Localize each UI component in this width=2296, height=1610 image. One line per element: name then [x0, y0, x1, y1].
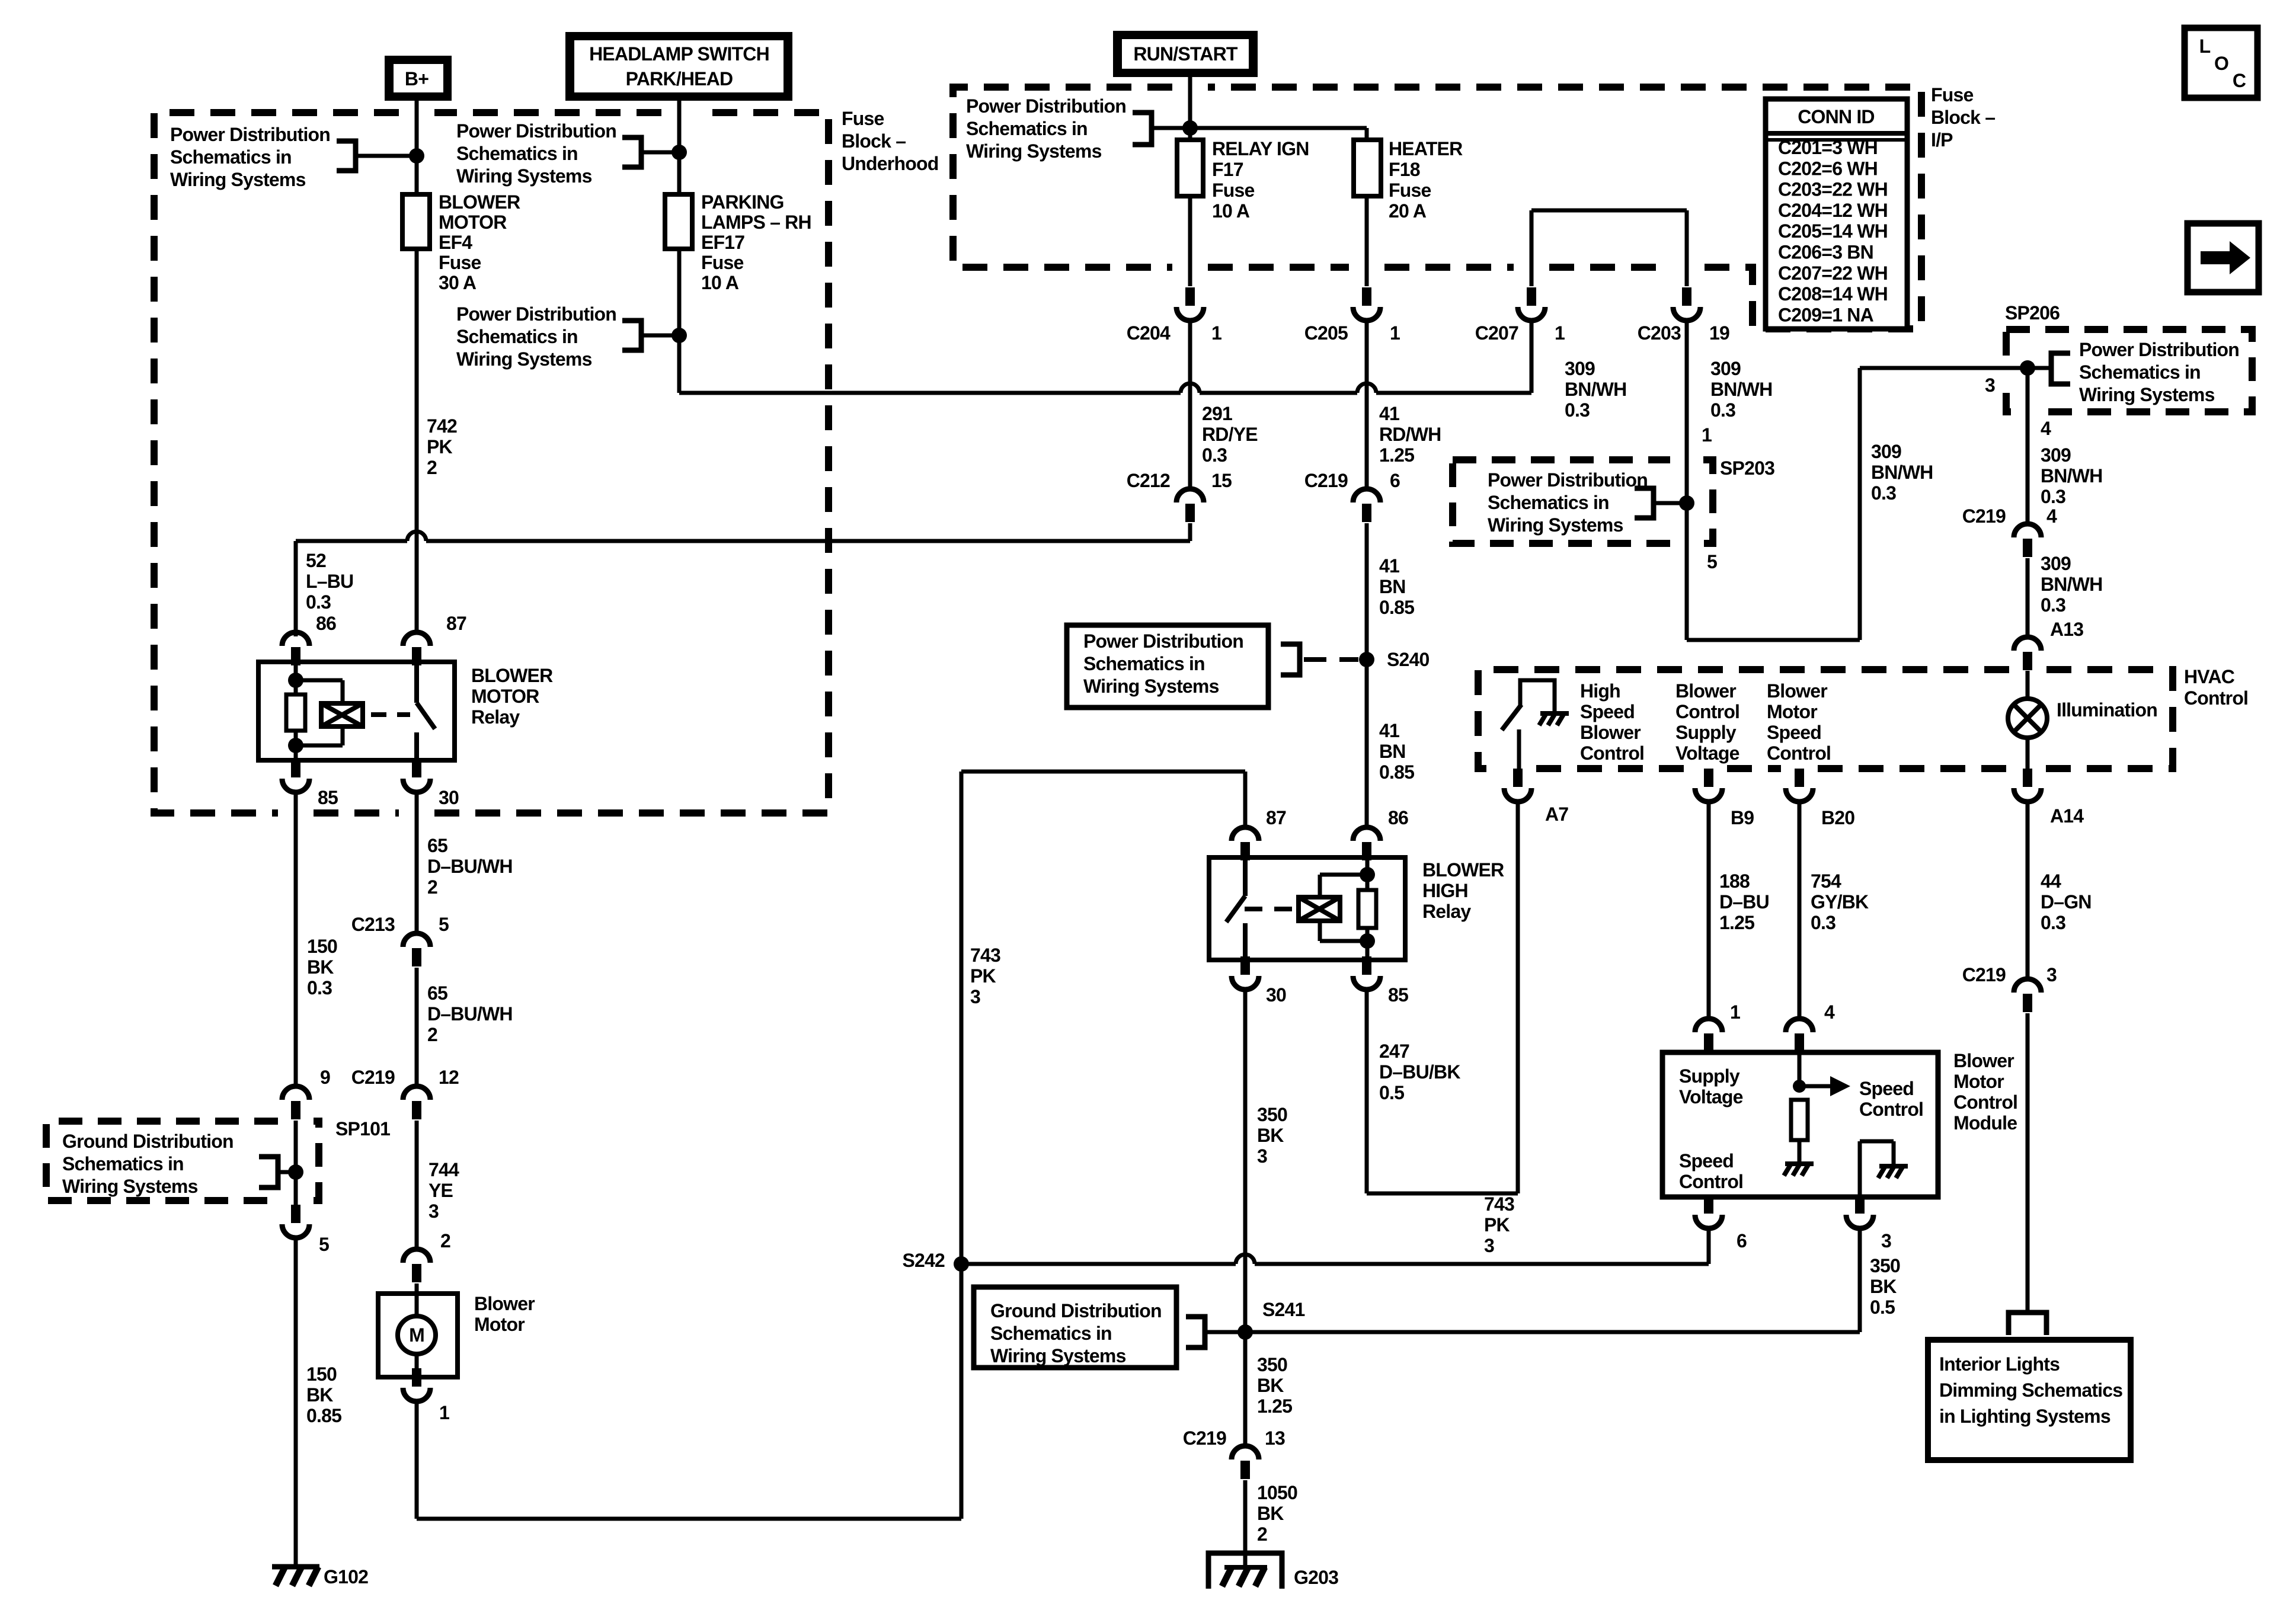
- svg-text:RD/YE: RD/YE: [1202, 424, 1258, 445]
- connector C205 pin 1: [1362, 287, 1371, 306]
- svg-text:C219: C219: [1962, 505, 2006, 527]
- svg-text:C212: C212: [1127, 470, 1170, 491]
- connector relay pin 87: [403, 632, 430, 646]
- relay high coil winding symbol: [1320, 857, 1367, 941]
- svg-text:291: 291: [1202, 403, 1232, 424]
- svg-text:Wiring Systems: Wiring Systems: [2079, 384, 2215, 405]
- wire 742 PK from EF4 to relay 87: [415, 249, 419, 632]
- svg-text:Wiring Systems: Wiring Systems: [62, 1176, 198, 1197]
- svg-text:3: 3: [1257, 1145, 1267, 1167]
- relay coil winding symbol: [296, 680, 343, 745]
- svg-text:Fuse: Fuse: [1389, 180, 1431, 201]
- svg-text:BK: BK: [307, 956, 334, 978]
- svg-text:BN: BN: [1379, 576, 1406, 597]
- connector relay high pin 85: [1362, 956, 1371, 975]
- wire hop at C205 column: [1357, 383, 1376, 393]
- relay switch contact: [414, 662, 419, 760]
- wire 309 BN/WH SP206 to C219-4: [2026, 368, 2030, 523]
- svg-text:Block –: Block –: [842, 130, 906, 152]
- RUN/START power terminal box: [1113, 31, 1258, 77]
- connector C212 pin 15: [1176, 489, 1204, 502]
- svg-text:BK: BK: [1257, 1125, 1284, 1146]
- svg-text:0.3: 0.3: [307, 977, 332, 998]
- svg-text:350: 350: [1870, 1255, 1900, 1276]
- wire 744 YE C219-12 to blower motor: [415, 1121, 419, 1249]
- svg-text:C201=3 WH: C201=3 WH: [1778, 137, 1878, 158]
- svg-text:Control: Control: [1767, 742, 1831, 764]
- connector HVAC pin A14: [2023, 769, 2032, 787]
- svg-text:Motor: Motor: [1767, 701, 1817, 722]
- svg-text:Supply: Supply: [1679, 1065, 1740, 1087]
- svg-text:Power Distribution: Power Distribution: [966, 95, 1126, 117]
- wire 350 BK S241 to C219-13: [1243, 1332, 1248, 1445]
- connector HVAC pin A13: [2014, 637, 2041, 651]
- svg-text:Speed: Speed: [1679, 1150, 1734, 1172]
- splice S241: [1237, 1324, 1253, 1340]
- svg-text:D–GN: D–GN: [2041, 891, 2092, 913]
- svg-text:1.25: 1.25: [1257, 1395, 1292, 1417]
- svg-text:S242: S242: [902, 1250, 945, 1271]
- svg-text:742: 742: [427, 415, 457, 437]
- connector C219 pin 13: [1232, 1446, 1259, 1459]
- wire RUN/START feed down: [1188, 77, 1192, 140]
- svg-text:SP101: SP101: [335, 1118, 390, 1140]
- svg-text:A7: A7: [1545, 804, 1568, 825]
- svg-text:BN: BN: [1379, 741, 1406, 762]
- svg-text:350: 350: [1257, 1354, 1287, 1375]
- svg-text:HEATER: HEATER: [1389, 138, 1463, 159]
- svg-text:BK: BK: [306, 1384, 333, 1406]
- fuse block - underhood dashed box: [154, 113, 829, 813]
- fuse EF17 parking lamps 10A: [665, 194, 692, 249]
- svg-text:Wiring Systems: Wiring Systems: [966, 140, 1102, 162]
- svg-text:Schematics in: Schematics in: [62, 1153, 184, 1174]
- connector C219 pin 12: [403, 1086, 430, 1100]
- B+ power terminal box: [385, 56, 452, 101]
- svg-text:I/P: I/P: [1931, 129, 1953, 151]
- relay coil resistor: [294, 665, 298, 694]
- svg-text:4: 4: [2046, 505, 2057, 527]
- wire 247 D-BU/BK relay85 to A7: [1367, 802, 1518, 1193]
- svg-text:BN/WH: BN/WH: [1565, 379, 1626, 400]
- wire parking lamps to C207: [679, 249, 1531, 393]
- arrow legend box: [2188, 223, 2259, 292]
- svg-text:B20: B20: [1821, 807, 1854, 828]
- svg-text:S240: S240: [1387, 649, 1430, 670]
- svg-text:4: 4: [1824, 1001, 1835, 1023]
- svg-text:Schematics in: Schematics in: [990, 1323, 1112, 1344]
- connector C207 pin 1: [1527, 287, 1536, 306]
- svg-text:Fuse: Fuse: [1212, 180, 1255, 201]
- svg-text:Ground Distribution: Ground Distribution: [62, 1131, 234, 1152]
- node junction at parking lamps wire upper: [671, 145, 687, 160]
- wire F17 to connector C204: [1188, 196, 1192, 286]
- svg-text:LAMPS – RH: LAMPS – RH: [701, 212, 811, 233]
- svg-text:Blower: Blower: [1675, 680, 1736, 702]
- svg-text:YE: YE: [428, 1180, 453, 1201]
- svg-text:309: 309: [1871, 441, 1901, 462]
- svg-text:Schematics in: Schematics in: [2079, 361, 2201, 383]
- svg-text:1.25: 1.25: [1379, 444, 1414, 466]
- svg-text:3: 3: [1484, 1235, 1494, 1256]
- svg-text:Relay: Relay: [1422, 901, 1471, 922]
- svg-text:C205=14 WH: C205=14 WH: [1778, 220, 1888, 242]
- svg-text:D–BU/WH: D–BU/WH: [427, 1003, 513, 1025]
- svg-text:3: 3: [1985, 375, 1995, 396]
- svg-text:Supply: Supply: [1675, 722, 1737, 743]
- connector relay pin 85: [291, 759, 300, 777]
- svg-text:BN/WH: BN/WH: [2041, 465, 2102, 486]
- svg-text:Power Distribution: Power Distribution: [1488, 469, 1648, 491]
- svg-text:C208=14 WH: C208=14 WH: [1778, 283, 1888, 305]
- module internal resistor: [1791, 1100, 1808, 1140]
- connector HVAC pin B20: [1795, 769, 1804, 787]
- svg-text:4: 4: [2041, 418, 2051, 439]
- svg-text:C205: C205: [1304, 322, 1348, 344]
- connector HVAC pin B9: [1704, 769, 1713, 787]
- connector C219 pin 9: [282, 1086, 309, 1100]
- wire F18 to connector C205: [1365, 196, 1369, 286]
- svg-text:Illumination: Illumination: [2057, 699, 2157, 721]
- svg-text:1: 1: [1730, 1001, 1740, 1023]
- svg-text:F17: F17: [1212, 159, 1243, 180]
- svg-text:SP203: SP203: [1720, 457, 1774, 479]
- svg-text:Fuse: Fuse: [439, 252, 481, 273]
- svg-text:BN/WH: BN/WH: [1871, 462, 1933, 483]
- svg-text:0.85: 0.85: [306, 1405, 341, 1426]
- svg-text:in Lighting Systems: in Lighting Systems: [1939, 1406, 2110, 1427]
- svg-text:RD/WH: RD/WH: [1379, 424, 1441, 445]
- svg-text:0.5: 0.5: [1379, 1082, 1404, 1103]
- svg-text:Blower: Blower: [474, 1293, 535, 1314]
- fuse F17 relay ign 10A: [1177, 140, 1203, 196]
- svg-text:D–BU/WH: D–BU/WH: [427, 856, 513, 877]
- splice pack SP203 dashed box: [1453, 460, 1713, 543]
- svg-text:0.3: 0.3: [1871, 482, 1896, 504]
- svg-text:HEADLAMP SWITCH: HEADLAMP SWITCH: [589, 43, 769, 65]
- svg-text:Underhood: Underhood: [842, 153, 938, 174]
- svg-text:PK: PK: [1484, 1214, 1510, 1235]
- svg-text:A14: A14: [2050, 805, 2084, 827]
- CONN ID table: [1766, 99, 1907, 329]
- wire headlamp switch to EF17 fuse: [677, 101, 682, 194]
- splice S242: [954, 1256, 969, 1272]
- connector C203 pin 19: [1682, 287, 1691, 306]
- svg-text:0.3: 0.3: [306, 591, 331, 613]
- svg-text:1: 1: [1390, 322, 1400, 344]
- svg-text:2: 2: [427, 876, 437, 898]
- svg-text:2: 2: [427, 1024, 437, 1045]
- svg-text:2: 2: [427, 457, 437, 478]
- node junction RUN/START branch: [1182, 120, 1198, 136]
- svg-text:Wiring Systems: Wiring Systems: [456, 348, 592, 370]
- svg-text:L: L: [2199, 36, 2211, 57]
- svg-text:Schematics in: Schematics in: [456, 143, 578, 164]
- svg-text:5: 5: [319, 1234, 329, 1255]
- connector relay pin 86: [282, 632, 309, 646]
- svg-text:86: 86: [316, 613, 336, 634]
- svg-text:Power Distribution: Power Distribution: [1083, 630, 1243, 652]
- svg-text:PK: PK: [970, 965, 996, 987]
- svg-text:C219: C219: [1962, 964, 2006, 985]
- svg-text:SP206: SP206: [2005, 302, 2060, 324]
- svg-text:C219: C219: [1183, 1427, 1226, 1449]
- svg-text:A13: A13: [2050, 619, 2083, 640]
- svg-text:BK: BK: [1870, 1276, 1897, 1297]
- svg-text:GY/BK: GY/BK: [1811, 891, 1869, 913]
- svg-text:1: 1: [1702, 424, 1712, 446]
- wire 150 BK SP101 to G102: [294, 1238, 298, 1565]
- svg-text:Schematics in: Schematics in: [170, 146, 292, 168]
- svg-text:0.5: 0.5: [1870, 1297, 1895, 1318]
- svg-text:Speed: Speed: [1767, 722, 1821, 743]
- svg-text:309: 309: [2041, 553, 2071, 574]
- wire 1050 BK to G203: [1243, 1480, 1248, 1569]
- svg-text:Power Distribution: Power Distribution: [170, 124, 330, 145]
- wire 44 D-GN A14 to C219-3: [2026, 802, 2030, 978]
- svg-text:0.3: 0.3: [2041, 912, 2065, 933]
- connector module pin 6: [1704, 1195, 1713, 1214]
- svg-text:EF4: EF4: [439, 232, 472, 253]
- splice S240: [1359, 652, 1374, 667]
- svg-text:10 A: 10 A: [1212, 200, 1250, 222]
- svg-text:Schematics in: Schematics in: [1083, 653, 1205, 674]
- wire 309 BN/WH C203 through SP203: [1687, 321, 2028, 640]
- svg-text:30 A: 30 A: [439, 272, 477, 293]
- wire S242 to module pin 6: [961, 1229, 1709, 1264]
- svg-text:150: 150: [306, 1363, 337, 1385]
- svg-text:PK: PK: [427, 436, 453, 457]
- svg-text:C203: C203: [1638, 322, 1681, 344]
- svg-text:15: 15: [1211, 470, 1232, 491]
- svg-text:G203: G203: [1294, 1567, 1338, 1588]
- wire 188 D-BU B9 to module 1: [1707, 802, 1711, 1018]
- svg-text:C204: C204: [1127, 322, 1171, 344]
- svg-text:3: 3: [970, 986, 980, 1007]
- blower motor control module box: [1662, 1052, 1938, 1197]
- svg-text:Power Distribution: Power Distribution: [456, 303, 616, 325]
- svg-text:Wiring Systems: Wiring Systems: [1488, 514, 1623, 536]
- svg-text:Wiring Systems: Wiring Systems: [456, 165, 592, 187]
- svg-text:5: 5: [439, 914, 449, 935]
- svg-text:F18: F18: [1389, 159, 1420, 180]
- relay coil-contact dashed link: [371, 712, 410, 717]
- svg-text:0.3: 0.3: [2041, 594, 2065, 616]
- wire 65 D-BU/WH C213 to C219-12: [415, 968, 419, 1086]
- svg-text:Fuse: Fuse: [1931, 84, 1974, 105]
- wire hop over 742 PK: [407, 532, 426, 541]
- svg-text:Dimming Schematics: Dimming Schematics: [1939, 1379, 2122, 1401]
- module internal speed control arrow: [1799, 1052, 1830, 1086]
- svg-text:Control: Control: [1679, 1171, 1743, 1192]
- svg-text:1: 1: [439, 1402, 449, 1423]
- interior lights dimming box: [1928, 1340, 2131, 1460]
- svg-text:41: 41: [1379, 720, 1399, 741]
- svg-text:Motor: Motor: [1953, 1071, 2004, 1092]
- svg-text:1.25: 1.25: [1719, 912, 1754, 933]
- connector C219 pin 4: [2014, 524, 2041, 537]
- svg-text:BN/WH: BN/WH: [1710, 379, 1772, 400]
- svg-text:309: 309: [1710, 358, 1741, 379]
- wire hop at C204 column: [1181, 383, 1200, 393]
- terminal staple interior lights: [2009, 1313, 2046, 1335]
- svg-text:BK: BK: [1257, 1503, 1284, 1524]
- wire blower motor pin1 to S242: [417, 772, 961, 1519]
- svg-text:Fuse: Fuse: [701, 252, 744, 273]
- svg-text:6: 6: [1390, 470, 1400, 491]
- svg-text:C209=1 NA: C209=1 NA: [1778, 304, 1874, 325]
- relay high coil resistor: [1358, 890, 1376, 928]
- svg-text:44: 44: [2041, 870, 2061, 892]
- svg-text:0.3: 0.3: [1710, 399, 1735, 421]
- svg-text:0.3: 0.3: [1202, 444, 1227, 466]
- node junction SP203: [1679, 495, 1694, 511]
- svg-text:6: 6: [1737, 1230, 1747, 1251]
- lamp illumination: [2026, 671, 2030, 699]
- wire 150 BK relay85 to C219-9: [294, 793, 298, 1086]
- svg-text:C202=6 WH: C202=6 WH: [1778, 158, 1878, 179]
- svg-text:52: 52: [306, 550, 326, 571]
- svg-text:Block –: Block –: [1931, 107, 1995, 128]
- svg-text:743: 743: [1484, 1193, 1514, 1215]
- svg-text:BN/WH: BN/WH: [2041, 574, 2102, 595]
- svg-text:S241: S241: [1262, 1299, 1305, 1320]
- ground G203: [1208, 1553, 1282, 1589]
- svg-text:C206=3 BN: C206=3 BN: [1778, 242, 1873, 263]
- svg-text:D–BU: D–BU: [1719, 891, 1769, 913]
- svg-text:3: 3: [428, 1201, 439, 1222]
- dashed link to S240: [1304, 657, 1358, 662]
- wire 44 D-GN to interior lights: [2026, 1013, 2030, 1313]
- connector relay high pin 86: [1353, 827, 1380, 841]
- svg-text:PARKING: PARKING: [701, 191, 784, 213]
- svg-text:B9: B9: [1731, 807, 1754, 828]
- relay high coil-contact dashed link: [1245, 907, 1299, 911]
- svg-text:2: 2: [1257, 1523, 1267, 1545]
- node junction at B+ wire: [409, 148, 424, 164]
- svg-text:3: 3: [2046, 964, 2057, 985]
- connector SP101 pin 5: [291, 1205, 300, 1223]
- svg-text:Speed: Speed: [1859, 1078, 1914, 1099]
- svg-text:PARK/HEAD: PARK/HEAD: [626, 68, 733, 89]
- svg-text:D–BU/BK: D–BU/BK: [1379, 1061, 1460, 1083]
- svg-text:M: M: [409, 1324, 424, 1346]
- wire 41 BN C219-6 to relay 86: [1365, 523, 1369, 827]
- svg-text:Control: Control: [1675, 701, 1739, 722]
- svg-text:10 A: 10 A: [701, 272, 739, 293]
- svg-text:247: 247: [1379, 1041, 1409, 1062]
- svg-text:0.3: 0.3: [1811, 912, 1835, 933]
- svg-text:0.3: 0.3: [1565, 399, 1590, 421]
- node junction SP206: [2020, 360, 2035, 376]
- svg-text:Voltage: Voltage: [1675, 742, 1739, 764]
- svg-text:Voltage: Voltage: [1679, 1086, 1743, 1108]
- HVAC control dashed box: [1478, 670, 2173, 769]
- svg-text:Control: Control: [1953, 1092, 2017, 1113]
- wire internal C207 to C203: [1531, 210, 1687, 286]
- wire 754 GY/BK B20 to module 4: [1798, 802, 1802, 1018]
- svg-text:350: 350: [1257, 1104, 1287, 1125]
- svg-text:HIGH: HIGH: [1422, 880, 1468, 901]
- connector module pin 3: [1855, 1195, 1865, 1214]
- svg-text:13: 13: [1265, 1427, 1285, 1449]
- svg-text:RELAY IGN: RELAY IGN: [1212, 138, 1309, 159]
- svg-text:Blower: Blower: [1580, 722, 1641, 743]
- connector blower motor pin 1: [412, 1368, 421, 1387]
- splice pack SP206 dashed box: [2006, 329, 2252, 412]
- connector module pin 1: [1695, 1019, 1722, 1032]
- svg-text:Blower: Blower: [1767, 680, 1827, 702]
- svg-text:1050: 1050: [1257, 1482, 1297, 1503]
- svg-text:C207=22 WH: C207=22 WH: [1778, 263, 1888, 284]
- svg-text:L–BU: L–BU: [306, 571, 353, 592]
- module internal ground 2: [1860, 1141, 1894, 1197]
- connector C219 pin 6: [1353, 489, 1380, 502]
- connector relay high pin 30: [1240, 956, 1250, 975]
- wire RUN/START branch to F18: [1190, 128, 1367, 140]
- wire 65 D-BU/WH relay30 to C213: [415, 793, 419, 933]
- relay blower motor box: [258, 662, 455, 760]
- connector C219 pin 3: [2014, 979, 2041, 993]
- svg-text:BLOWER: BLOWER: [1422, 859, 1504, 881]
- svg-text:BLOWER: BLOWER: [439, 191, 520, 213]
- svg-text:Power Distribution: Power Distribution: [2079, 339, 2239, 360]
- svg-text:20 A: 20 A: [1389, 200, 1427, 222]
- svg-text:C: C: [2233, 70, 2246, 91]
- svg-text:Ground Distribution: Ground Distribution: [990, 1300, 1162, 1321]
- wire B+ feed to EF4 fuse: [415, 101, 419, 194]
- svg-text:65: 65: [427, 835, 447, 856]
- svg-text:309: 309: [2041, 444, 2071, 466]
- connector HVAC pin A7: [1513, 769, 1523, 787]
- svg-text:Motor: Motor: [474, 1314, 525, 1335]
- wire 350 BK relay30 to S241: [1243, 990, 1248, 1332]
- svg-text:Interior Lights: Interior Lights: [1939, 1353, 2060, 1375]
- fuse block - I/P dashed outline: [953, 87, 1921, 329]
- svg-text:C204=12 WH: C204=12 WH: [1778, 200, 1888, 221]
- svg-text:Power Distribution: Power Distribution: [456, 120, 616, 142]
- svg-text:Speed: Speed: [1580, 701, 1635, 722]
- svg-text:G102: G102: [324, 1566, 368, 1587]
- svg-text:C203=22 WH: C203=22 WH: [1778, 179, 1888, 200]
- wire S241 to module pin 3: [1245, 1229, 1860, 1332]
- svg-text:0.85: 0.85: [1379, 597, 1414, 618]
- wire through SP101: [294, 1121, 298, 1206]
- svg-text:19: 19: [1709, 322, 1729, 344]
- svg-text:41: 41: [1379, 403, 1399, 424]
- svg-text:BLOWER: BLOWER: [471, 665, 553, 686]
- wire 309 BN/WH C219-4 to A13: [2026, 558, 2030, 636]
- svg-text:RUN/START: RUN/START: [1133, 43, 1238, 65]
- svg-text:Wiring Systems: Wiring Systems: [170, 169, 306, 190]
- svg-text:C207: C207: [1475, 322, 1518, 344]
- svg-text:Fuse: Fuse: [842, 108, 884, 129]
- connector module pin 4: [1786, 1019, 1813, 1032]
- svg-text:12: 12: [439, 1067, 459, 1088]
- connector relay high pin 87: [1232, 827, 1259, 841]
- svg-text:3: 3: [1881, 1230, 1891, 1251]
- svg-text:754: 754: [1811, 870, 1841, 892]
- svg-text:5: 5: [1707, 551, 1717, 572]
- module internal ground 1: [1785, 1161, 1814, 1166]
- relay high switch contact: [1243, 857, 1248, 960]
- svg-text:O: O: [2214, 53, 2228, 74]
- svg-text:87: 87: [1266, 807, 1286, 828]
- connector C204 pin 1: [1185, 287, 1195, 306]
- svg-text:1: 1: [1211, 322, 1221, 344]
- high speed blower switch: [1520, 680, 1555, 712]
- svg-text:85: 85: [318, 787, 338, 808]
